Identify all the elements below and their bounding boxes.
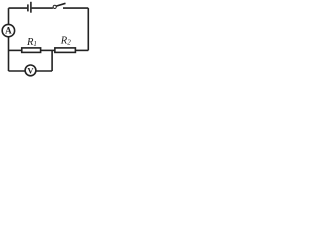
wire bottom-left [9, 70, 26, 72]
wire right rail [87, 8, 89, 50]
wire top-left horizontal [9, 7, 28, 9]
wire voltmeter to tap [36, 70, 52, 72]
battery cell: short plate (negative) [27, 4, 29, 11]
resistor R2 box [55, 48, 76, 53]
voltmeter V1 circle [25, 65, 36, 76]
svg-text:A: A [5, 26, 12, 36]
wire ammeter to junction and down [8, 37, 10, 71]
wire switch to top-right corner [63, 7, 88, 9]
wire battery to switch [32, 7, 53, 9]
wire R1 to R2 with tap node [41, 49, 55, 51]
svg-text:V: V [27, 65, 34, 75]
resistor R1 box [22, 48, 41, 53]
switch S pivot circle [53, 5, 56, 8]
wire top-left down to ammeter [8, 8, 10, 24]
wire junction to R1 [9, 49, 22, 51]
wire voltmeter tap vertical [51, 50, 53, 71]
wire R2 to right rail [75, 49, 88, 51]
battery cell: long plate (positive) [30, 2, 32, 13]
circuit schematic: battery + switch on top, ammeter left, R1 R2 series middle, voltmeter bottom [0, 0, 96, 80]
switch blade [56, 3, 65, 6]
ammeter A1 circle [2, 24, 14, 36]
